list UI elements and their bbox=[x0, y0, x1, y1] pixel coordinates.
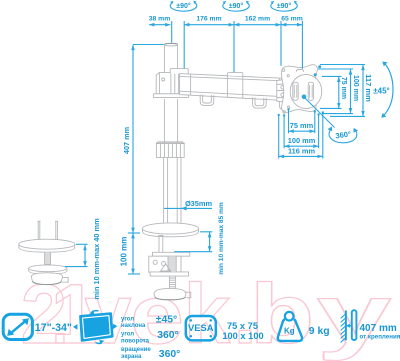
svg-text:Ø35mm: Ø35mm bbox=[185, 199, 213, 208]
dimension 176 mm bbox=[184, 16, 234, 25]
grommet top disc bbox=[19, 239, 75, 252]
dimension min 10 mm-max 85 mm bbox=[174, 202, 225, 275]
svg-text:±45°: ±45° bbox=[156, 315, 177, 326]
svg-text:min 10 mm-max 40 mm: min 10 mm-max 40 mm bbox=[92, 218, 101, 300]
rotation label ±90° #1 bbox=[170, 1, 197, 11]
vesa dim 100 mm right bbox=[318, 69, 359, 114]
svg-text:360°: 360° bbox=[159, 349, 181, 360]
arm bar bbox=[180, 74, 282, 101]
svg-text:162 mm: 162 mm bbox=[245, 16, 270, 23]
pole lower tube bbox=[164, 157, 181, 225]
pole upper tube bbox=[164, 43, 177, 143]
rotation dot on vesa center bbox=[302, 95, 307, 100]
svg-text:176 mm: 176 mm bbox=[196, 16, 221, 23]
svg-text:75 mm: 75 mm bbox=[290, 121, 314, 130]
svg-text:экрана: экрана bbox=[121, 354, 142, 360]
clamp screw thread bbox=[168, 256, 176, 288]
svg-text:±90°: ±90° bbox=[277, 2, 292, 10]
extension line vesa top bbox=[301, 21, 303, 69]
rotation label 360° bbox=[328, 126, 359, 142]
blue reference dots on vesa tab bbox=[318, 65, 321, 68]
extension line pivot3 bbox=[280, 21, 282, 66]
svg-text:75 x 75: 75 x 75 bbox=[227, 321, 258, 331]
clamp guide bolt bbox=[158, 236, 163, 254]
rotation label ±90° #2 bbox=[223, 1, 250, 11]
desk disc bbox=[143, 223, 199, 237]
cable clip 1 bbox=[200, 95, 214, 106]
svg-text:±90°: ±90° bbox=[176, 2, 191, 10]
vesa plate bolt top bbox=[296, 70, 303, 72]
wall distance icon bbox=[341, 310, 357, 342]
grommet threaded rod bbox=[45, 252, 51, 265]
extension line pivot2 bbox=[233, 21, 235, 72]
dimension 65 mm bbox=[281, 16, 303, 25]
svg-text:наклона: наклона bbox=[121, 323, 146, 329]
svg-text:вращение: вращение bbox=[121, 347, 151, 353]
svg-text:Kg: Kg bbox=[284, 327, 295, 336]
vesa dim 100 mm bottom bbox=[283, 113, 320, 148]
arm clamp block on pole bbox=[153, 72, 188, 97]
weight icon bbox=[278, 312, 302, 341]
monitor icon bbox=[73, 310, 117, 344]
screen size icon bbox=[3, 314, 32, 339]
svg-text:17"-34": 17"-34" bbox=[35, 322, 72, 334]
VESA badge bbox=[186, 316, 216, 340]
svg-text:±45°: ±45° bbox=[373, 87, 390, 96]
svg-text:75 mm: 75 mm bbox=[340, 77, 347, 99]
clamp foot pad bbox=[154, 288, 191, 299]
svg-text:угол: угол bbox=[121, 316, 134, 322]
svg-text:от крепления: от крепления bbox=[360, 333, 400, 340]
vesa dim 117 mm right bbox=[320, 65, 373, 117]
extension line pole top bbox=[171, 21, 173, 43]
extension line pivot1 bbox=[183, 21, 185, 68]
svg-text:y: y bbox=[317, 267, 392, 361]
vesa sizes text bbox=[222, 321, 263, 341]
dimension 100 mm vertical bbox=[120, 233, 141, 274]
svg-text:100 x 100: 100 x 100 bbox=[222, 331, 263, 341]
svg-text:100 mm: 100 mm bbox=[120, 237, 129, 267]
svg-text:поворота: поворота bbox=[121, 338, 150, 344]
arm joint1 cover bbox=[170, 69, 188, 75]
dimension 38 mm bbox=[149, 16, 171, 25]
svg-text:b: b bbox=[250, 268, 314, 361]
tilt swivel rotate text bbox=[121, 316, 151, 360]
svg-text:угол: угол bbox=[121, 331, 134, 337]
vesa joint bracket bbox=[277, 79, 289, 103]
svg-text:117 mm: 117 mm bbox=[364, 74, 373, 102]
watermark 21vek.by bbox=[21, 267, 392, 361]
vesa plate outline bbox=[281, 65, 317, 113]
svg-text:100 mm: 100 mm bbox=[288, 136, 316, 145]
dimension 162 mm bbox=[234, 16, 281, 25]
arm joint2 cover bbox=[228, 73, 243, 77]
svg-text:VESA: VESA bbox=[188, 322, 214, 333]
svg-text:min 10 mm-max 85 mm: min 10 mm-max 85 mm bbox=[218, 202, 225, 275]
grommet bolts bbox=[38, 221, 59, 240]
svg-text:100 mm: 100 mm bbox=[352, 75, 359, 101]
angle values bbox=[156, 315, 181, 360]
pole collar knob bbox=[156, 142, 184, 158]
cable clip 3 bbox=[279, 100, 293, 110]
svg-text:±90°: ±90° bbox=[229, 2, 244, 10]
svg-text:9 kg: 9 kg bbox=[309, 326, 330, 337]
clamp top plate bbox=[153, 252, 190, 256]
vesa center disc bbox=[290, 75, 322, 109]
tilt arc ±45° bbox=[381, 62, 393, 118]
rotation leader line bbox=[304, 97, 335, 128]
svg-text:407 mm: 407 mm bbox=[360, 323, 397, 334]
svg-text:407 mm: 407 mm bbox=[122, 126, 131, 154]
svg-text:65 mm: 65 mm bbox=[281, 16, 303, 23]
vesa dim 116 mm bottom bbox=[278, 111, 324, 158]
svg-text:360°: 360° bbox=[157, 330, 179, 341]
clamp bottom arm bbox=[150, 272, 188, 276]
dimension min 10 mm-max 40 mm bbox=[65, 218, 101, 300]
svg-text:38 mm: 38 mm bbox=[149, 16, 171, 23]
vesa dim 75 mm right bbox=[320, 76, 347, 108]
dimension Ø35mm bbox=[164, 199, 212, 211]
rotation label ±90° #3 bbox=[271, 1, 298, 11]
svg-text:k: k bbox=[184, 267, 231, 361]
vesa dim 75 mm bottom bbox=[287, 108, 316, 133]
vesa slot right bbox=[308, 82, 313, 100]
grommet foot cup bbox=[31, 273, 68, 285]
cable clip 2 bbox=[253, 97, 267, 108]
dimension 407 mm vertical bbox=[122, 45, 164, 234]
vesa plate tab holes bbox=[282, 69, 290, 114]
vesa slot left bbox=[293, 82, 298, 100]
grommet lower plate bbox=[29, 265, 67, 274]
svg-text:116 mm: 116 mm bbox=[288, 147, 316, 156]
clamp body bbox=[149, 256, 181, 272]
